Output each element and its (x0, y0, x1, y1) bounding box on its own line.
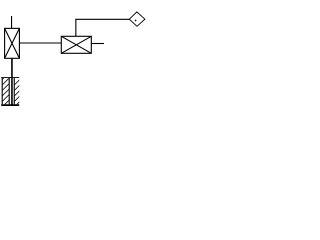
base plate (1, 104, 19, 106)
wire (19, 42, 61, 44)
wire (11, 58, 13, 104)
wire (76, 19, 130, 36)
foundation inner right guide (13, 78, 15, 104)
foundation left wall (1, 78, 3, 105)
node dot (135, 20, 137, 22)
filter F1 (5, 28, 20, 58)
mixer M1 (61, 36, 91, 53)
hatching left (2, 66, 16, 108)
wire (91, 43, 104, 45)
foundation top line (1, 77, 19, 79)
wire (11, 16, 13, 28)
hatching right (14, 71, 28, 113)
instrument diamond (129, 12, 145, 26)
foundation inner left guide (8, 78, 10, 104)
